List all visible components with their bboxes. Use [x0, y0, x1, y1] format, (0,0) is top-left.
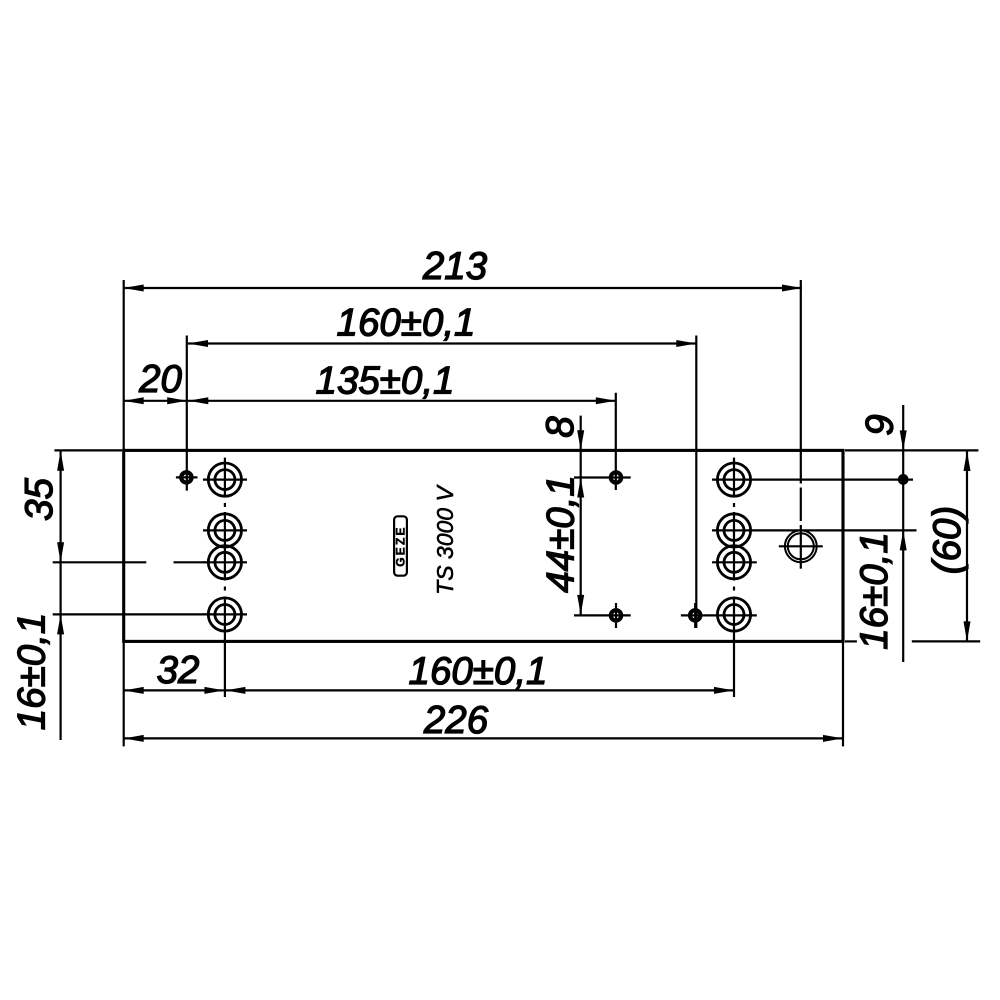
small hole B1 [611, 472, 621, 482]
extension line, row 2 centerline extended right [712, 529, 917, 531]
small hole D4 [690, 610, 700, 620]
svg-text:135±0,1: 135±0,1 [316, 360, 455, 403]
centerline, right hole column dash dot 2 [733, 587, 735, 591]
svg-text:GEZE: GEZE [394, 525, 408, 566]
hole L3 (left column row 3) [208, 546, 241, 579]
extension line, plate top edge extended right [845, 449, 978, 451]
spindle hole centerline dash-dot segment 2 [800, 488, 802, 522]
centerline, hole B1 horizontal [574, 476, 631, 478]
arrow 20 right [167, 397, 187, 404]
arrow 160 bottom left [225, 687, 245, 694]
spindle hole double ring [785, 530, 817, 562]
dimension line 20 and 135±0,1 [124, 400, 616, 402]
arrow 16 left up at row 4 [57, 614, 64, 634]
centerline, hole L3 horizontal [203, 561, 247, 563]
centerline, left hole column vertical segment 2 [224, 512, 226, 581]
arrow 160 bottom right [714, 687, 734, 694]
dimension line 160±0,1 top [188, 342, 696, 344]
extension line through hole B1 (x=615.8) [615, 393, 617, 490]
centerline, right hole column dash dot [733, 503, 735, 507]
arrow 35 down at row 3 [57, 542, 64, 562]
arrow 32 left [124, 687, 144, 694]
hole R3 (right column row 3) [717, 546, 750, 579]
centerline, left hole column vertical segment 1 [224, 458, 226, 498]
arrow 135 left [188, 397, 208, 404]
arrow 32 right [204, 687, 224, 694]
arrow 44 down at row 4 [577, 595, 584, 615]
svg-text:TS 3000 V: TS 3000 V [432, 484, 458, 595]
centerline, hole B3 horizontal [574, 614, 631, 616]
extension line below plate, left hole column (x=224.9) [224, 641, 226, 697]
extension line, row 1 centerline extended right to dot [712, 479, 913, 481]
centerline, hole B3 vertical [615, 603, 617, 628]
arrow 160 top right [676, 340, 696, 347]
extension line, row 4 centerline extended left [53, 613, 211, 615]
dimension line 32 and 160±0,1 bottom [124, 689, 734, 691]
centerline, row 4 through holes C4 and D4 [681, 614, 757, 616]
centerline, hole L1 horizontal [203, 479, 247, 481]
centerline, left hole column dash dot [224, 503, 226, 507]
svg-text:44±0,1: 44±0,1 [540, 475, 583, 592]
svg-text:160±0,1: 160±0,1 [337, 302, 476, 345]
arrow (60) up [964, 451, 971, 471]
extension line through hole B4 (x=696.3) [695, 336, 697, 629]
dimension line (60) [966, 451, 968, 642]
extension line through spindle hole above plate (x=800.8) [800, 280, 802, 450]
extension line below plate, right hole column (x=734) [733, 641, 735, 697]
svg-text:35: 35 [18, 478, 61, 521]
arrow 8 down at plate top [577, 430, 584, 450]
arrow 35 up at plate top [57, 451, 64, 471]
arrow 213 left [124, 285, 144, 292]
arrow 9 down at plate top [900, 430, 907, 450]
centerline, hole L4 horizontal [203, 613, 247, 615]
small hole B3 [611, 610, 621, 620]
hole L1 (left column row 1) [208, 463, 241, 496]
centerline, left hole column dash dot 2 [224, 587, 226, 591]
hole R2 (right column row 2) [717, 514, 750, 547]
centerline, hole R3 horizontal [712, 561, 757, 563]
svg-text:16±0,1: 16±0,1 [853, 532, 896, 649]
svg-text:(60): (60) [926, 506, 969, 574]
arrow 135 right [596, 397, 616, 404]
centerline, right hole column vertical segment 1 [733, 458, 735, 498]
svg-text:32: 32 [157, 649, 200, 692]
centerline, hole D4 vertical [694, 603, 696, 628]
svg-text:226: 226 [423, 699, 489, 742]
svg-text:20: 20 [138, 358, 182, 401]
hole L2 (left column row 2) [208, 514, 241, 547]
svg-text:9: 9 [859, 414, 902, 435]
svg-text:213: 213 [422, 245, 488, 288]
dimension line 8 and 44±0,1 [580, 416, 582, 616]
centerline, right hole column vertical segment 3 [733, 597, 735, 642]
dot terminator of dimension 9 [898, 474, 909, 485]
arrow 16 right up at row 2 [900, 530, 907, 550]
arrow 160 top left [188, 340, 208, 347]
centerline, right hole column vertical segment 2 [733, 512, 735, 581]
arrow 226 right [823, 735, 843, 742]
arrow (60) down [964, 621, 971, 641]
extension line, plate bottom edge extended right segment 1 [845, 640, 857, 642]
svg-text:16±0,1: 16±0,1 [11, 613, 54, 730]
hole L4 (left column row 4) [208, 598, 241, 631]
centerline, hole A1 horizontal [176, 476, 198, 478]
arrow 226 left [124, 735, 144, 742]
extension line, row 3 centerline extended left segment 1 [53, 561, 147, 563]
hole R4 (right column row 4) [717, 598, 750, 631]
dimension line 213 [124, 287, 802, 289]
arrow 8/44 up at row 1 [577, 478, 584, 498]
svg-text:160±0,1: 160±0,1 [409, 650, 548, 693]
arrow 20 left [124, 397, 144, 404]
arrow 213 right [782, 285, 802, 292]
mounting plate outline [124, 450, 843, 641]
centerline, left hole column vertical segment 3 [224, 597, 226, 642]
spindle hole centerline dash-dot segment 3 [800, 525, 802, 569]
extension line, row 3 centerline extended left segment 2 [174, 561, 209, 563]
small hole A1 [181, 472, 191, 482]
extension line through hole A1 (x=186.8) [186, 336, 188, 491]
extension line, plate left edge below plate (x=123.7) [123, 641, 125, 746]
dimension line 9 and 16±0,1 right [902, 405, 904, 662]
extension line, plate left edge above plate (x=123.7) [123, 280, 125, 450]
extension line, plate top edge extended left [54, 449, 122, 451]
dimension line 226 [124, 737, 843, 739]
GEZE logo box [394, 516, 408, 575]
hole R1 (right column row 1) [717, 463, 750, 496]
extension line, plate right edge below plate (x=843) [842, 641, 844, 746]
centerline, spindle hole horizontal [779, 545, 823, 547]
spindle hole centerline dash-dot segment 1 [800, 450, 802, 484]
extension line, plate bottom edge extended right segment 2 [912, 640, 980, 642]
dimension line 35 and 16±0,1 left [59, 451, 61, 740]
svg-text:8: 8 [539, 416, 582, 438]
centerline, hole L2 horizontal [203, 529, 247, 531]
